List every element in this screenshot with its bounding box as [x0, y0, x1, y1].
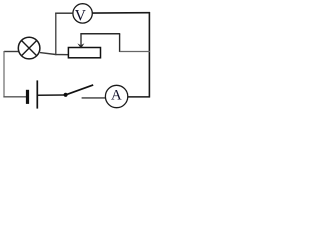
svg-text:A: A	[111, 88, 122, 104]
svg-text:V: V	[75, 8, 86, 25]
wire: lamp right lead to rheostat	[40, 53, 69, 55]
wire: left vertical	[3, 51, 5, 97]
switch S open blade	[67, 85, 94, 95]
rheostat R1 body	[68, 48, 100, 58]
ammeter A1 body	[105, 85, 127, 107]
wire: jog horizontal to right vertical	[120, 51, 150, 53]
wire: voltmeter branch vertical	[55, 13, 57, 56]
battery BT1 positive plate (long thin)	[36, 80, 38, 108]
lamp L1 cross diagonal 2	[22, 41, 37, 56]
voltmeter V1 body	[73, 4, 92, 23]
lamp L1 cross diagonal 1	[22, 41, 37, 56]
wire: top run to voltmeter	[92, 12, 150, 14]
wire: battery to switch	[38, 94, 64, 96]
switch S pivot dot	[64, 93, 68, 97]
wire: bottom left to battery	[3, 96, 26, 98]
rheostat R1 slider arrow shaft	[80, 33, 82, 45]
wire: slider horizontal run	[80, 33, 120, 35]
battery BT1 negative plate (short thick)	[26, 90, 29, 104]
wire: voltmeter left lead	[55, 12, 73, 14]
wire: switch to ammeter	[82, 97, 106, 99]
lamp L1 body	[18, 37, 40, 59]
wire: ammeter right lead	[128, 96, 150, 98]
wire: right vertical	[148, 12, 150, 98]
wire: lamp left lead	[4, 51, 19, 53]
wire: jog vertical	[119, 34, 121, 52]
rheostat R1 slider arrowhead	[77, 43, 84, 48]
